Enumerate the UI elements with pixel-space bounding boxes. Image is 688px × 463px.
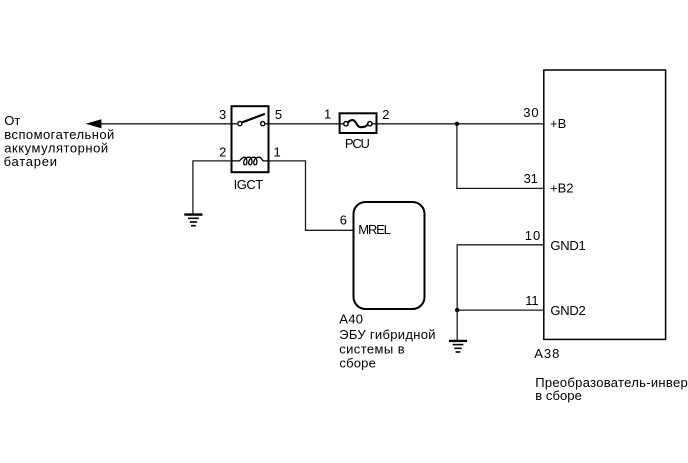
fuse PCU box — [340, 113, 377, 133]
svg-text:системы в: системы в — [339, 342, 404, 357]
fuse terminal circle right — [368, 122, 372, 126]
svg-text:30: 30 — [523, 105, 538, 120]
node: junction of GND1/GND2 and ground — [455, 308, 459, 312]
wire: relay pin 2 to ground G1 — [193, 161, 231, 214]
svg-text:A38: A38 — [534, 346, 559, 361]
wire: relay pin 5 to fuse pin 1 — [265, 123, 344, 125]
svg-text:11: 11 — [525, 293, 538, 308]
text: from auxiliary battery — [4, 113, 115, 169]
wire: junction down to ground G2 — [456, 310, 458, 340]
svg-text:2: 2 — [382, 107, 389, 122]
svg-text:IGCT: IGCT — [234, 177, 264, 192]
ground G1 (left, under relay coil) — [184, 215, 202, 226]
relay contact circle pin 5 side — [261, 122, 265, 126]
svg-text:GND2: GND2 — [550, 303, 585, 318]
svg-text:6: 6 — [340, 212, 347, 227]
wire: node to +B2, vertical drop and run to pin 31 — [457, 124, 543, 189]
svg-text:2: 2 — [219, 144, 226, 159]
svg-text:31: 31 — [524, 171, 538, 186]
svg-text:MREL: MREL — [358, 222, 391, 237]
svg-text:10: 10 — [525, 228, 540, 243]
fuse element s-curve — [348, 120, 368, 127]
relay contact circle pin 3 side — [238, 122, 242, 126]
svg-text:+B2: +B2 — [550, 181, 574, 196]
wire: relay pin 1 to MREL pin 6 — [270, 161, 353, 230]
node: junction of +B and +B2 — [455, 122, 459, 126]
wire: inverter pin 11 (GND2) to junction — [457, 309, 543, 311]
svg-text:PCU: PCU — [345, 136, 370, 151]
arrowhead to auxiliary battery — [86, 119, 102, 128]
svg-text:батареи: батареи — [4, 154, 57, 169]
svg-text:3: 3 — [219, 107, 226, 122]
fuse terminal circle left — [344, 122, 348, 126]
svg-text:+B: +B — [550, 116, 566, 131]
relay IGCT box — [232, 106, 269, 172]
text: inverter assembly — [535, 375, 688, 403]
wire: fuse pin 2 to inverter pin 30 (+B) — [372, 123, 543, 125]
svg-text:сборе: сборе — [339, 355, 375, 370]
wire: main feed from battery arrow to relay pin 3 — [99, 123, 238, 125]
svg-text:1: 1 — [274, 144, 281, 159]
svg-text:GND1: GND1 — [550, 238, 585, 253]
svg-text:5: 5 — [275, 107, 282, 122]
svg-text:1: 1 — [324, 107, 331, 122]
ground G2 (right, under inverter) — [449, 341, 467, 352]
relay coil — [232, 157, 270, 165]
text: hybrid system ECU assembly — [339, 327, 435, 370]
svg-text:A40: A40 — [339, 312, 363, 327]
svg-text:От: От — [4, 113, 20, 128]
svg-text:в сборе: в сборе — [535, 388, 582, 403]
inverter A38 box — [544, 70, 666, 339]
MREL box (A40 ECU) — [354, 202, 425, 309]
svg-text:ЭБУ гибридной: ЭБУ гибридной — [339, 327, 435, 342]
relay switch blade — [242, 114, 265, 123]
wire: inverter pin 10 (GND1) left and down — [457, 245, 543, 310]
